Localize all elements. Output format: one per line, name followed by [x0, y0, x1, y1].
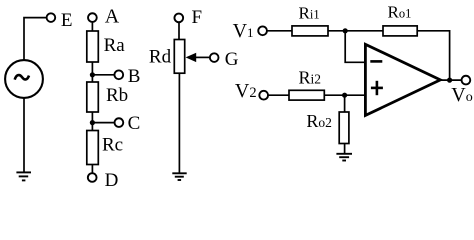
wire Ro2 to ground	[344, 144, 346, 154]
AC source VS1	[5, 60, 43, 98]
terminal Vo	[462, 76, 471, 85]
ground (AC source)	[16, 172, 31, 180]
wire node B to terminal B	[92, 74, 114, 76]
junction dot non-inverting node	[342, 93, 347, 98]
wire from AC source bottom to ground	[23, 98, 25, 173]
wire V1 to Ri1	[267, 30, 292, 32]
wire non-inverting node down to Ro2	[344, 95, 346, 112]
node C junction dot	[90, 120, 95, 125]
svg-text:C: C	[128, 113, 141, 134]
resistor Ri1	[292, 26, 328, 36]
terminal F	[174, 14, 183, 23]
wire V2 to Ri2	[268, 94, 289, 96]
svg-text:Rc: Rc	[102, 134, 123, 155]
terminal D	[88, 173, 97, 182]
resistor Ri2	[289, 90, 324, 100]
resistor Rc	[87, 131, 99, 165]
wire Rc to terminal D	[91, 165, 93, 174]
terminal C	[115, 118, 124, 127]
wire Ro1 to output node (feedback)	[417, 31, 449, 80]
wire Ra to Rb	[91, 62, 93, 82]
wire from AC source top to terminal E	[24, 18, 47, 61]
terminal G	[210, 53, 219, 62]
terminal A	[88, 13, 97, 22]
terminal V1	[258, 26, 267, 35]
svg-text:E: E	[61, 10, 73, 31]
wiper arrow of Rd	[186, 53, 210, 62]
resistor Rb	[87, 82, 99, 112]
junction dot inverting node	[343, 28, 348, 33]
wire A to Ra	[91, 22, 93, 31]
op-amp U1	[365, 44, 440, 115]
svg-text:B: B	[128, 66, 141, 87]
resistor Ro2	[339, 112, 349, 144]
wire Ri1 to Ro1	[328, 30, 383, 32]
wire Ri2 to op-amp plus input	[324, 94, 365, 96]
node B junction dot	[90, 72, 95, 77]
ground (Ro2)	[336, 154, 352, 161]
svg-text:Rb: Rb	[106, 85, 128, 106]
wire inverting node down to op-amp minus input	[345, 31, 365, 63]
wire F to Rd	[178, 22, 180, 39]
terminal E	[47, 13, 56, 22]
wire Rb to Rc	[91, 112, 93, 131]
junction dot output node	[447, 78, 452, 83]
svg-text:F: F	[192, 7, 203, 28]
wire op-amp output to terminal Vo	[440, 79, 462, 81]
resistor Ra	[87, 31, 99, 62]
svg-text:Rd: Rd	[149, 46, 172, 67]
svg-text:D: D	[105, 170, 119, 191]
ground (Rd)	[172, 173, 186, 180]
terminal B	[114, 70, 123, 79]
svg-text:A: A	[105, 6, 120, 28]
wire Rd to ground	[178, 73, 180, 173]
svg-text:Ra: Ra	[104, 35, 126, 56]
resistor Ro1	[383, 26, 417, 36]
terminal V2	[259, 91, 268, 100]
svg-text:G: G	[225, 49, 239, 70]
wire node C to terminal C	[92, 122, 114, 124]
potentiometer Rd body	[174, 40, 184, 74]
